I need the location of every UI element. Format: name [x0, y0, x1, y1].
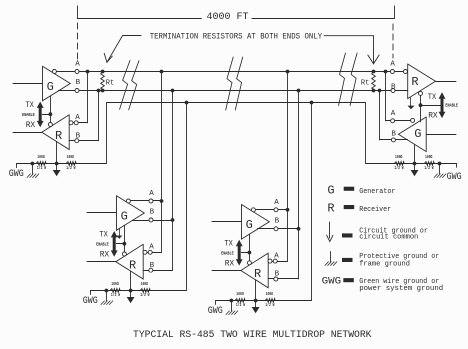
transceiver 1 ground rail wire: [17, 163, 107, 165]
svg-text:1/2 W: 1/2 W: [424, 165, 433, 171]
transceiver 4 terminal R-B: [391, 89, 395, 93]
transceiver 2 terminal R-A: [148, 250, 152, 254]
transceiver 4 resistor 100 ohm (left): [394, 162, 405, 166]
svg-text:A: A: [390, 61, 395, 69]
transceiver 4 generator input wire: [426, 134, 456, 136]
transceiver 3 generator G triangle: [242, 205, 270, 240]
svg-text:power system ground: power system ground: [359, 285, 443, 293]
arrowhead left leader: [104, 53, 112, 62]
cable break middle (slash 2): [235, 57, 243, 110]
transceiver 2 bubble G output A: [126, 199, 130, 203]
transceiver 2 circuit ground arrow under G: [119, 228, 121, 235]
svg-text:B: B: [275, 218, 280, 226]
transceiver 1 terminal R-A: [74, 121, 78, 125]
dimension end tick left: [77, 6, 79, 19]
svg-text:RX: RX: [225, 260, 235, 269]
svg-text:ENABLE: ENABLE: [96, 242, 109, 248]
svg-text:R: R: [254, 267, 261, 281]
svg-text:A: A: [149, 190, 154, 198]
transceiver 1 GWG stub: [16, 164, 18, 168]
svg-text:100Ω: 100Ω: [111, 281, 119, 287]
transceiver 3 junction enable stub: [248, 251, 252, 255]
svg-text:GWG: GWG: [322, 276, 342, 288]
transceiver 4 junction riser G-B / bus B: [378, 89, 382, 93]
transceiver 1 wire R input B: [69, 140, 98, 142]
junction Rt right top: [372, 70, 376, 74]
transceiver 2 terminal G-A: [149, 199, 153, 203]
transceiver 1 TX/RX direction arrow: [39, 107, 42, 122]
transceiver 2 receiver R triangle: [116, 244, 143, 279]
cable break right (slash 1): [339, 53, 346, 105]
transceiver 2 riser wire B (to bus B): [172, 91, 174, 271]
transceiver 1 enable wire: [50, 96, 52, 123]
transceiver 3 wire R input A: [268, 261, 287, 263]
svg-text:R: R: [55, 129, 62, 143]
wire bus line B: [58, 90, 407, 92]
svg-text:100Ω: 100Ω: [266, 291, 274, 297]
svg-text:RX: RX: [26, 121, 36, 130]
transceiver 3 bubble R input A: [268, 259, 272, 263]
transceiver 4 ground rail wire: [366, 163, 457, 165]
transceiver 1 terminal G-A: [75, 70, 79, 74]
transceiver 3 riser wire B (to bus B): [298, 91, 300, 280]
svg-text:ENABLE: ENABLE: [221, 251, 234, 257]
transceiver 4 riser wire G-A (to bus A): [385, 72, 387, 121]
transceiver 2 junction protective ground: [105, 289, 109, 293]
leader to right termination resistor: [324, 36, 373, 64]
transceiver 3 generator input wire: [212, 221, 242, 223]
transceiver 1 terminal R-B: [75, 139, 79, 143]
svg-text:G: G: [47, 80, 54, 94]
svg-text:100Ω: 100Ω: [67, 154, 75, 160]
transceiver 2 junction riser A / G-A wire: [160, 199, 164, 203]
transceiver 4 riser wire G-B (to bus B): [379, 91, 381, 140]
legend symbol circuit ground (arrow): [329, 222, 331, 238]
svg-text:100Ω: 100Ω: [395, 154, 403, 160]
transceiver 3 enable stub wire: [241, 252, 249, 254]
transceiver 3 terminal R-A: [273, 259, 277, 263]
transceiver 4 GWG stub: [456, 164, 458, 168]
transceiver 4 terminal G-B: [391, 138, 395, 142]
svg-text:G: G: [414, 127, 421, 141]
transceiver 4 receiver R triangle: [408, 64, 436, 99]
transceiver 3 ground rail wire: [216, 300, 312, 302]
transceiver 4 enable bubble at R: [419, 91, 423, 95]
transceiver 1 junction riser B / bus B: [97, 89, 101, 93]
transceiver 2 resistor 100 ohm (left): [110, 289, 121, 293]
svg-text:100Ω: 100Ω: [425, 154, 433, 160]
svg-text:A: A: [391, 110, 396, 118]
transceiver 2 resistor 100 ohm (right): [140, 289, 151, 293]
transceiver 3 circuit ground (triangle): [255, 301, 257, 308]
transceiver 4 terminal R-A: [390, 70, 394, 74]
svg-text:A: A: [75, 61, 80, 69]
transceiver 1 enable bubble at R: [48, 123, 52, 127]
svg-text:G: G: [246, 218, 253, 232]
transceiver 2 receiver output wire: [87, 261, 116, 263]
svg-text:Rt: Rt: [106, 80, 115, 88]
arrowhead right leader: [368, 55, 379, 64]
transceiver 1 wire R input A: [69, 122, 87, 124]
transceiver 1 junction enable stub: [49, 112, 53, 116]
transceiver 3 receiver output wire: [212, 270, 241, 272]
transceiver 1 generator input wire: [13, 83, 43, 85]
transceiver 3 junction riser A / G-A wire: [286, 208, 290, 212]
transceiver 1 enable stub wire: [42, 114, 50, 116]
svg-text:100Ω: 100Ω: [141, 281, 149, 287]
svg-text:100Ω: 100Ω: [236, 291, 244, 297]
transceiver 1 riser wire B (bus B to R input B): [98, 91, 100, 141]
transceiver 4 wire G output B: [380, 139, 408, 141]
transceiver 3 terminal G-A: [274, 208, 278, 212]
legend dash protective ground: [343, 258, 353, 261]
transceiver 1 junction circuit ground: [55, 162, 59, 166]
transceiver 2 bubble R input A: [143, 250, 147, 254]
svg-text:GWG: GWG: [447, 171, 462, 183]
transceiver 1 riser wire A (bus A to R input A): [87, 72, 89, 123]
svg-text:4000 FT: 4000 FT: [207, 11, 249, 23]
svg-text:1/2 W: 1/2 W: [140, 292, 149, 298]
transceiver 3 wire G output B: [257, 228, 298, 230]
transceiver 4 bubble G output A: [411, 118, 415, 122]
transceiver 1 generator G triangle: [43, 66, 71, 101]
svg-text:R: R: [411, 75, 418, 89]
svg-text:A: A: [149, 244, 154, 252]
transceiver 1 junction riser A / bus A: [86, 70, 90, 74]
transceiver 3 GWG stub: [215, 301, 217, 305]
transceiver 3 riser wire A (to bus A): [287, 72, 289, 262]
svg-text:Receiver: Receiver: [359, 206, 391, 214]
transceiver 2 junction riser B / G-B wire: [171, 218, 175, 222]
transceiver 1 wire G output A: [56, 71, 102, 73]
transceiver 2 wire G output B: [132, 220, 172, 222]
transceiver 4 receiver output wire: [436, 81, 457, 83]
transceiver 3 junction protective ground: [230, 299, 234, 303]
transceiver 2 circuit ground (triangle): [130, 291, 132, 298]
svg-text:B: B: [150, 262, 155, 270]
transceiver 2 junction circuit ground: [129, 289, 133, 293]
termination resistor Rt right: [372, 72, 376, 91]
svg-text:B: B: [275, 271, 280, 279]
transceiver 3 TX/RX direction arrow: [238, 245, 241, 260]
svg-text:G: G: [327, 183, 334, 197]
svg-text:GWG: GWG: [9, 168, 24, 180]
transceiver 3 junction riser B / bus B: [297, 89, 301, 93]
transceiver 4 generator G triangle: [398, 117, 426, 152]
transceiver 3 terminal G-B: [274, 227, 278, 231]
transceiver 4 junction circuit ground: [413, 162, 417, 166]
transceiver 2 enable stub wire: [116, 243, 124, 245]
legend dash circuit ground: [343, 234, 353, 237]
transceiver 4 circuit ground arrow under R: [410, 98, 412, 106]
transceiver 2 generator G triangle: [117, 196, 145, 231]
transceiver 1 circuit ground (triangle): [56, 164, 58, 171]
svg-text:B: B: [76, 132, 81, 140]
extension line right (dashed): [392, 24, 394, 58]
transceiver 1 receiver ground wire: [56, 142, 58, 164]
dimension line 4000 FT (right segment): [252, 18, 394, 20]
transceiver 2 GWG stub: [90, 291, 92, 295]
transceiver 2 junction enable stub: [123, 242, 127, 246]
termination resistor Rt left: [101, 72, 105, 91]
transceiver 4 protective/frame ground: [439, 164, 441, 174]
svg-text:RX: RX: [428, 112, 438, 121]
transceiver 1 terminal G-B: [75, 89, 79, 93]
legend dash R: [344, 206, 354, 209]
svg-text:1/2 W: 1/2 W: [37, 165, 46, 171]
transceiver 3 receiver ground wire: [255, 280, 257, 301]
svg-text:Rt: Rt: [361, 80, 370, 88]
junction Rt left top: [101, 70, 105, 74]
svg-text:TX: TX: [224, 239, 233, 248]
transceiver 4 resistor 100 ohm (right): [424, 162, 435, 166]
transceiver 1 wire G output B: [58, 90, 102, 92]
svg-text:TX: TX: [428, 93, 437, 102]
wire bus signal common: [107, 103, 366, 164]
svg-text:frame ground: frame ground: [359, 261, 410, 269]
transceiver 3 protective/frame ground: [231, 301, 233, 311]
transceiver 1 bubble G output A: [52, 70, 56, 74]
transceiver 3 receiver R triangle: [241, 253, 268, 288]
transceiver 3 common riser wire: [311, 103, 313, 301]
svg-text:TYPCIAL RS-485 TWO WIRE MULTID: TYPCIAL RS-485 TWO WIRE MULTIDROP NETWOR…: [133, 329, 372, 341]
svg-text:TX: TX: [25, 101, 34, 110]
cable break right (slash 2): [350, 53, 357, 105]
svg-text:B: B: [391, 130, 396, 138]
svg-text:A: A: [274, 199, 279, 207]
transceiver 3 junction riser A / bus A: [286, 70, 290, 74]
transceiver 2 enable bubble at R: [122, 252, 126, 256]
svg-text:A: A: [75, 114, 80, 122]
junction Rt left bottom: [101, 89, 105, 93]
leader to left termination resistor: [107, 36, 141, 63]
cable break left (slash 2): [129, 61, 139, 110]
transceiver 2 protective/frame ground: [106, 291, 108, 301]
transceiver 2 wire R input A: [143, 252, 161, 254]
transceiver 2 wire R input B: [143, 270, 172, 272]
transceiver 3 bubble G output A: [251, 208, 255, 212]
svg-text:R: R: [129, 258, 136, 272]
transceiver 1 protective/frame ground: [32, 164, 34, 174]
transceiver 4 enable wire: [420, 96, 422, 122]
transceiver 2 wire G output A: [130, 200, 161, 202]
transceiver 1 junction protective ground: [31, 162, 35, 166]
svg-text:100Ω: 100Ω: [37, 154, 45, 160]
transceiver 1 resistor 100 ohm (left): [36, 162, 47, 166]
transceiver 3 resistor 100 ohm (left): [235, 299, 246, 303]
svg-text:TX: TX: [99, 231, 108, 240]
transceiver 3 terminal R-B: [274, 277, 278, 281]
svg-text:G: G: [121, 209, 128, 223]
svg-text:TERMINATION RESISTORS AT BOTH: TERMINATION RESISTORS AT BOTH ENDS ONLY: [150, 33, 323, 41]
transceiver 2 junction riser B / bus B: [171, 89, 175, 93]
svg-text:ENABLE: ENABLE: [445, 103, 458, 109]
transceiver 3 resistor 100 ohm (right): [265, 299, 276, 303]
svg-text:B: B: [76, 79, 81, 87]
transceiver 4 junction riser G-A / bus A: [384, 70, 388, 74]
transceiver 3 enable wire: [249, 234, 251, 261]
transceiver 4 bubble R input A: [403, 70, 407, 74]
extension line left (dashed): [77, 23, 79, 60]
svg-text:A: A: [274, 252, 279, 260]
legend dash G: [344, 187, 354, 190]
svg-text:1/2 W: 1/2 W: [394, 165, 403, 171]
svg-text:circuit common: circuit common: [359, 234, 418, 242]
svg-text:RX: RX: [100, 251, 110, 260]
transceiver 3 wire G output A: [255, 209, 287, 211]
dimension line 4000 FT (left segment): [78, 18, 202, 20]
transceiver 2 terminal G-B: [149, 218, 153, 222]
svg-text:1/2 W: 1/2 W: [111, 292, 120, 298]
svg-text:ENABLE: ENABLE: [22, 112, 35, 118]
transceiver 4 generator ground wire: [414, 144, 416, 163]
transceiver 1 resistor 100 ohm (right): [66, 162, 77, 166]
transceiver 2 junction common riser / common bus: [185, 101, 189, 105]
transceiver 1 receiver output wire: [13, 132, 42, 134]
cable break middle (slash 1): [226, 57, 234, 110]
transceiver 4 junction protective ground: [438, 162, 442, 166]
transceiver 2 junction riser A / bus A: [160, 70, 164, 74]
transceiver 3 enable bubble at R: [247, 261, 251, 265]
transceiver 1 receiver R triangle: [42, 115, 69, 150]
transceiver 2 receiver ground wire: [130, 271, 132, 291]
transceiver 4 junction enable stub: [419, 103, 423, 107]
transceiver 3 junction riser B / G-B wire: [297, 227, 301, 231]
junction Rt right bottom: [372, 89, 376, 93]
svg-text:1/2 W: 1/2 W: [265, 302, 274, 308]
svg-text:B: B: [391, 83, 396, 91]
svg-text:1/2 W: 1/2 W: [66, 165, 75, 171]
transceiver 3 wire R input B: [268, 278, 298, 280]
transceiver 2 enable wire: [124, 225, 126, 252]
transceiver 2 TX/RX direction arrow: [113, 236, 116, 251]
transceiver 1 bubble R input A: [69, 121, 73, 125]
transceiver 4 enable stub wire: [421, 105, 441, 107]
wire bus line A: [56, 71, 403, 73]
svg-text:Generator: Generator: [359, 188, 395, 196]
transceiver 2 terminal R-B: [149, 268, 153, 272]
legend symbol protective ground: [330, 252, 332, 262]
transceiver 2 ground rail wire: [91, 290, 187, 292]
transceiver 2 generator input wire: [87, 212, 117, 214]
legend dash GWG: [344, 279, 354, 282]
svg-text:R: R: [327, 201, 334, 215]
transceiver 4 terminal G-A: [391, 119, 395, 123]
svg-text:1/2 W: 1/2 W: [236, 302, 245, 308]
transceiver 3 junction common riser / common bus: [310, 101, 314, 105]
transceiver 3 junction circuit ground: [254, 299, 258, 303]
transceiver 4 wire G output A: [386, 120, 415, 122]
transceiver 4 TX/RX direction arrow: [441, 98, 444, 113]
svg-text:GWG: GWG: [83, 295, 98, 307]
transceiver 2 common riser wire: [186, 103, 188, 291]
svg-text:GWG: GWG: [208, 305, 223, 317]
transceiver 2 riser wire A (to bus A): [161, 72, 163, 253]
svg-text:B: B: [150, 209, 155, 217]
dimension end tick right: [394, 6, 396, 19]
cable break left (slash 1): [120, 60, 130, 109]
transceiver 4 circuit ground (triangle): [414, 164, 416, 171]
